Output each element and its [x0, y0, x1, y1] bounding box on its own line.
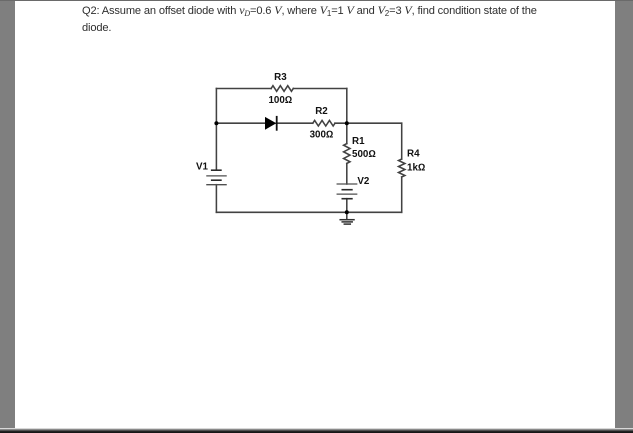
wire middle right (R2 to far right) — [335, 122, 402, 124]
node dot bottom — [345, 210, 349, 214]
resistor R1 — [344, 144, 350, 164]
svg-text:V1: V1 — [196, 162, 209, 173]
resistor R4 — [399, 159, 405, 177]
node dot left — [214, 121, 218, 125]
battery V2 plates — [337, 184, 357, 199]
wire left vertical upper — [215, 89, 217, 171]
left gray margin strip — [0, 0, 15, 430]
diode D1 cathode bar — [276, 117, 278, 130]
wire diode to R2 — [276, 122, 313, 124]
wire top-right horizontal — [293, 88, 347, 90]
svg-text:R1: R1 — [352, 136, 365, 147]
wire top-left horizontal (to R3) — [216, 88, 271, 90]
svg-text:R2: R2 — [315, 106, 328, 117]
wire bottom horizontal — [216, 211, 401, 213]
svg-text:R3: R3 — [274, 72, 287, 83]
battery V1 plates — [207, 170, 226, 185]
resistor R3 — [271, 86, 293, 92]
wire middle left (node to diode) — [216, 122, 265, 124]
right gray margin strip — [615, 0, 633, 430]
svg-text:100Ω: 100Ω — [268, 95, 292, 106]
resistor R2 — [313, 120, 335, 126]
wire left vertical lower — [215, 185, 217, 213]
top thin dark line — [0, 0, 633, 1]
ground symbol — [340, 220, 354, 224]
svg-text:1kΩ: 1kΩ — [407, 163, 425, 174]
svg-text:R4: R4 — [407, 148, 420, 159]
wire R1 to V2 — [346, 163, 348, 184]
svg-text:300Ω: 300Ω — [310, 130, 334, 141]
wire far-right vertical lower — [401, 177, 403, 212]
bottom black bar — [0, 428, 633, 433]
diode D1 triangle — [265, 117, 276, 130]
node dot mid — [345, 121, 349, 125]
svg-text:500Ω: 500Ω — [352, 149, 376, 160]
wire right-mid vertical upper — [346, 89, 348, 144]
question text — [82, 2, 602, 38]
svg-text:V2: V2 — [357, 176, 370, 187]
wire V2 to ground stem — [346, 199, 348, 219]
wire far-right vertical upper — [401, 123, 403, 159]
